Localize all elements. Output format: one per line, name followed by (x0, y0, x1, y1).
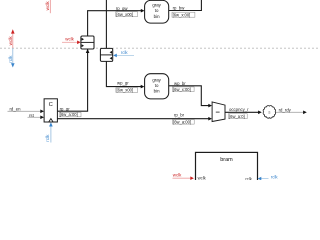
svg-text:rp_gw: rp_gw (116, 6, 129, 11)
svg-text:[6w_a:0]: [6w_a:0] (229, 114, 245, 119)
svg-text:rp_bw: rp_bw (173, 6, 186, 11)
svg-text:gray: gray (152, 3, 161, 8)
svg-text:[6w_x:00]: [6w_x:00] (173, 12, 191, 17)
svg-text:wclk: wclk (173, 173, 182, 178)
svg-text:rclk: rclk (45, 134, 50, 142)
svg-text:C: C (49, 102, 53, 108)
svg-text:wp_br: wp_br (174, 81, 186, 86)
svg-text:to: to (155, 8, 159, 13)
svg-text:to: to (155, 83, 159, 88)
svg-text:bin: bin (154, 89, 160, 94)
svg-text:wclk: wclk (65, 37, 74, 42)
svg-text:[6w_x00]: [6w_x00] (117, 88, 134, 93)
svg-text:wclk: wclk (198, 175, 207, 180)
svg-text:rst: rst (29, 113, 35, 118)
svg-text:[6w_x00]: [6w_x00] (116, 12, 133, 17)
svg-text:rd_en: rd_en (10, 107, 22, 112)
svg-text:rclk: rclk (245, 177, 252, 180)
svg-text:bin: bin (154, 14, 160, 19)
svg-text:[6w_a:00]: [6w_a:00] (173, 120, 191, 125)
svg-text:rp_br: rp_br (174, 113, 185, 118)
svg-text:wclk: wclk (8, 36, 13, 46)
svg-text:[6w_x:00]: [6w_x:00] (173, 87, 191, 92)
svg-text:bram: bram (220, 157, 233, 163)
svg-text:rd_rdy: rd_rdy (279, 108, 292, 113)
svg-text:rclk: rclk (271, 175, 279, 180)
svg-text:wclk: wclk (45, 1, 50, 11)
svg-text:[6w_a:00]: [6w_a:00] (60, 112, 78, 117)
svg-text:wp_gr: wp_gr (117, 81, 129, 86)
svg-text:rclk: rclk (8, 55, 13, 63)
svg-text:rclk: rclk (121, 50, 129, 55)
svg-text:rp_gr: rp_gr (60, 106, 71, 111)
svg-text:gray: gray (152, 77, 161, 82)
svg-text:occpncy_r: occpncy_r (229, 107, 249, 112)
